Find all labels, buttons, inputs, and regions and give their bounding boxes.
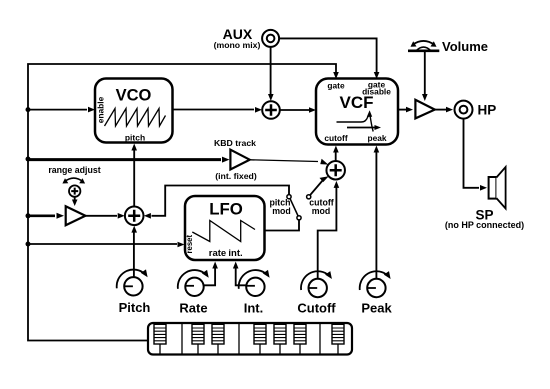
wire: KBD track (thick): [28, 158, 221, 161]
wire: HP to speaker: [464, 119, 480, 188]
VCF axis arrow: [347, 127, 375, 129]
knob Int.: [239, 270, 270, 296]
wire: volume to amp: [424, 52, 426, 96]
wire: amp to HP jack: [435, 109, 446, 111]
svg-text:Volume: Volume: [442, 39, 488, 54]
black keys: [154, 324, 344, 344]
svg-text:peak: peak: [367, 133, 386, 143]
svg-text:VCO: VCO: [116, 87, 152, 105]
svg-text:Cutoff: Cutoff: [297, 301, 336, 316]
knob Pitch: [117, 269, 148, 295]
svg-text:range adjust: range adjust: [48, 165, 100, 175]
wire: sum to VCF: [280, 109, 309, 111]
volume thumbwheel: [408, 49, 439, 52]
wire: into VCO enable: [28, 109, 87, 111]
svg-text:KBD track: KBD track: [214, 138, 256, 148]
wire: gate arrowhead into VCF top: [333, 72, 339, 79]
keyboard: [148, 323, 352, 355]
svg-text:gate: gate: [327, 81, 345, 91]
block VCF: [316, 79, 398, 145]
svg-text:(no HP connected): (no HP connected): [445, 220, 524, 230]
LFO sawtooth waveform: [192, 221, 255, 242]
node junction dot (LFO reset branch): [26, 242, 31, 247]
svg-text:HP: HP: [478, 103, 497, 118]
jack HP: [455, 101, 473, 119]
trimmer rotate arrow: [65, 178, 84, 182]
svg-text:Int.: Int.: [244, 301, 264, 316]
speaker SP: [489, 177, 497, 199]
wire: KBD track to cutoff sum: [250, 160, 318, 162]
svg-text:disable: disable: [362, 87, 391, 97]
node junction dot (range adjust branch): [26, 213, 31, 218]
wire: keyboard loop (left vertical, bottom to keyboard, top line to VCF gate): [28, 64, 336, 341]
summing node S3 (cutoff sum): [326, 161, 345, 180]
switch cutoff mod (open): [310, 180, 323, 195]
amp U3 (output amp): [415, 100, 434, 119]
svg-text:rate: rate: [209, 248, 226, 259]
knob Cutoff: [301, 271, 332, 297]
svg-text:Rate: Rate: [179, 301, 207, 316]
wire: AUX to VCF gate disable: [279, 38, 376, 74]
trimmer (range adjust): [69, 185, 80, 196]
wire: pitch mod switch to pitch sum: [152, 186, 290, 216]
VCO sawtooth waveform: [105, 109, 166, 127]
svg-text:int.: int.: [228, 248, 242, 259]
svg-text:cutoff: cutoff: [324, 133, 347, 143]
wire: VCF output to amp: [398, 109, 406, 111]
svg-text:Peak: Peak: [361, 301, 392, 316]
wire: into range amp: [28, 215, 55, 218]
wire: AUX down to sum node: [270, 47, 272, 96]
amp U1 (range adjust): [66, 206, 86, 225]
node junction dot (KBD track branch): [26, 157, 31, 162]
knob Rate: [178, 270, 209, 296]
wire: VCO output to sum node: [173, 109, 255, 111]
block LFO: [185, 196, 265, 260]
svg-text:Pitch: Pitch: [119, 300, 151, 315]
wire: peak knob to VCF peak: [375, 151, 377, 279]
wire: trimmer to amp: [74, 197, 76, 201]
summing node S1 (VCO + AUX): [262, 101, 280, 119]
svg-text:(mono mix): (mono mix): [214, 40, 261, 50]
jack AUX: [262, 30, 279, 47]
summing node S2 (pitch sum): [125, 207, 144, 226]
wire: rate knob to LFO: [204, 267, 216, 285]
wire: range amp to pitch sum: [85, 215, 117, 217]
svg-text:mod: mod: [312, 206, 331, 216]
wire: LFO output to pitch mod switch: [265, 220, 300, 231]
svg-text:(int. fixed): (int. fixed): [215, 171, 257, 181]
svg-text:reset: reset: [185, 234, 194, 253]
wire: cutoff sum to VCF cutoff: [335, 151, 337, 161]
wire: reset input: [28, 243, 177, 245]
amp U2 (KBD track buffer): [230, 150, 249, 170]
wire: pitch knob to pitch sum: [133, 231, 135, 277]
svg-text:pitch: pitch: [125, 133, 145, 143]
VCF response curve: [337, 114, 374, 132]
wire: int knob to LFO: [236, 267, 247, 285]
block VCO: [95, 79, 173, 143]
knob Peak: [360, 271, 391, 297]
wire: cutoff knob to cutoff sum: [318, 187, 337, 280]
wire: pitch sum to VCO pitch: [133, 149, 135, 207]
node junction dot (VCO branch): [26, 107, 31, 112]
svg-text:LFO: LFO: [209, 200, 243, 219]
switch pitch mod (closed): [290, 199, 298, 217]
svg-text:enable: enable: [95, 96, 105, 123]
white key dividers: [182, 323, 320, 355]
svg-text:mod: mod: [272, 206, 291, 216]
